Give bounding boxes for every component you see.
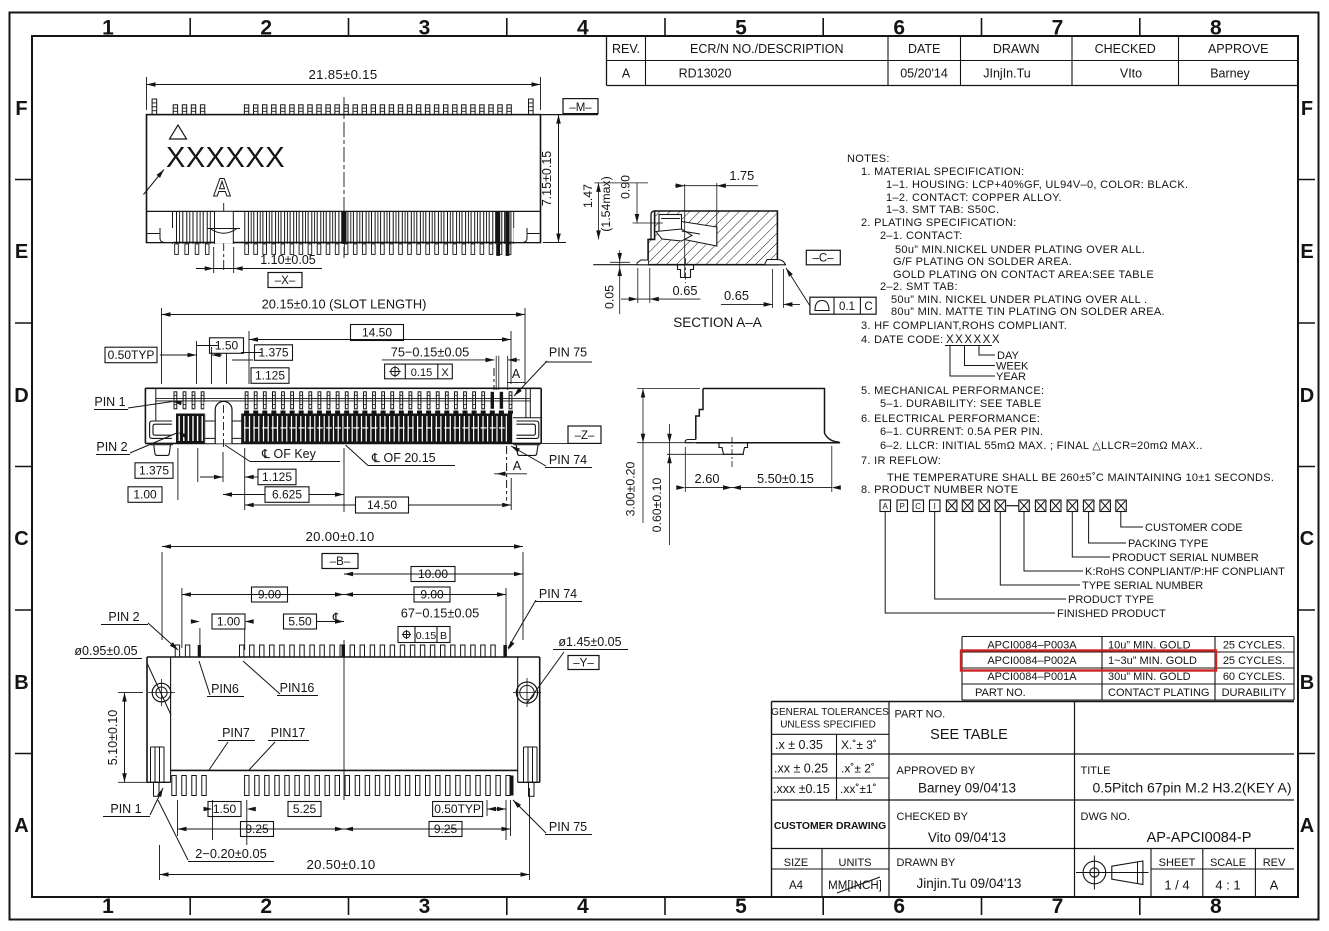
- svg-text:.xx˚±1˚: .xx˚±1˚: [840, 782, 877, 796]
- svg-text:SIZE: SIZE: [784, 857, 808, 869]
- section left foot: [637, 260, 648, 265]
- top view vertical centerline: [343, 97, 345, 258]
- svg-text:PIN 74: PIN 74: [539, 587, 577, 601]
- svg-text:0.15: 0.15: [416, 630, 437, 642]
- bottom view left corner tabs: [151, 747, 165, 782]
- svg-text:5.25: 5.25: [293, 802, 317, 816]
- svg-text:6.625: 6.625: [272, 488, 302, 502]
- front view lower contact band left group: [176, 414, 204, 444]
- svg-text:A4: A4: [789, 880, 804, 892]
- svg-text:A: A: [883, 502, 889, 511]
- side view body outline: [696, 389, 840, 443]
- top view solder tail stubs below body: [175, 244, 179, 255]
- svg-text:1.50: 1.50: [213, 802, 237, 816]
- svg-text:CHECKED BY: CHECKED BY: [897, 811, 969, 823]
- dimension 1.50 front: [210, 338, 244, 354]
- dimension 14.50 front lower: [245, 504, 355, 506]
- svg-text:NOTES:: NOTES:: [847, 153, 890, 165]
- svg-text:75−0.15±0.05: 75−0.15±0.05: [391, 345, 470, 360]
- svg-text:–Y–: –Y–: [573, 658, 594, 670]
- svg-text:6. ELECTRICAL PERFORMANCE:: 6. ELECTRICAL PERFORMANCE:: [861, 413, 1040, 425]
- svg-text:6: 6: [893, 17, 905, 40]
- front view band texture lines: [244, 427, 250, 428]
- svg-text:0.50TYP: 0.50TYP: [108, 348, 155, 362]
- svg-text:Vito 09/04'13: Vito 09/04'13: [928, 830, 1006, 845]
- svg-text:℄ OF 20.15: ℄ OF 20.15: [371, 451, 436, 465]
- section left wall outline: [651, 211, 655, 239]
- svg-text:UNLESS SPECIFIED: UNLESS SPECIFIED: [780, 720, 876, 731]
- svg-text:(1.54max): (1.54max): [599, 176, 613, 231]
- svg-text:C: C: [915, 502, 921, 511]
- title block grid lines: [888, 702, 890, 898]
- 0.50TYP arrows: [160, 354, 197, 356]
- leader arrow to marking: [144, 170, 165, 195]
- svg-text:UNITS: UNITS: [839, 857, 872, 869]
- svg-text:GOLD PLATING ON CONTACT: GOLD PLATING ON CONTACT AREA:SEE TABLE: [893, 269, 1154, 281]
- svg-text:F: F: [1301, 98, 1313, 120]
- svg-text:7.15±0.15: 7.15±0.15: [540, 151, 554, 207]
- svg-text:25 CYCLES.: 25 CYCLES.: [1223, 640, 1285, 652]
- svg-text:7: 7: [1052, 895, 1064, 918]
- svg-text:PIN 2: PIN 2: [96, 440, 127, 454]
- svg-text:Jinjin.Tu 09/04'13: Jinjin.Tu 09/04'13: [917, 876, 1022, 891]
- revision table: [606, 36, 608, 86]
- svg-text:REV: REV: [1263, 857, 1286, 869]
- svg-text:THE TEMPERATURE SHALL BE 2: THE TEMPERATURE SHALL BE 260±5˚C MAINTAI…: [887, 472, 1274, 484]
- svg-text:ø1.45±0.05: ø1.45±0.05: [558, 635, 621, 649]
- bottom view flange bottoms: [147, 781, 171, 783]
- key centerline in front view: [223, 405, 225, 449]
- svg-text:30u” MIN. GOLD: 30u” MIN. GOLD: [1108, 671, 1191, 683]
- svg-text:67−0.15±0.05: 67−0.15±0.05: [401, 606, 480, 621]
- svg-text:℄ OF Key: ℄ OF Key: [261, 447, 317, 461]
- svg-text:PIN 75: PIN 75: [549, 346, 587, 360]
- svg-text:PRODUCT TYPE: PRODUCT TYPE: [1068, 594, 1154, 606]
- svg-text:.xxx ±0.15: .xxx ±0.15: [773, 782, 830, 796]
- svg-text:I: I: [934, 502, 936, 511]
- svg-text:PART NO.: PART NO.: [975, 687, 1026, 699]
- right mounting hole: [516, 682, 537, 703]
- dimension 0.50TYP front: [105, 347, 157, 363]
- red highlight box on P002A row: [961, 651, 1216, 671]
- svg-text:5: 5: [735, 17, 747, 40]
- dimension 1.125 front lower: [258, 469, 296, 485]
- svg-text:1: 1: [102, 17, 114, 40]
- svg-text:4. DATE CODE:: 4. DATE CODE:: [861, 334, 944, 346]
- svg-text:PIN16: PIN16: [280, 681, 315, 695]
- svg-text:25 CYCLES.: 25 CYCLES.: [1223, 655, 1285, 667]
- svg-text:PIN7: PIN7: [222, 726, 250, 740]
- dimension 9.00 pair: [182, 594, 506, 596]
- svg-text:X: X: [441, 367, 449, 379]
- svg-text:PIN 1: PIN 1: [94, 395, 125, 409]
- section seating plane baseline: [593, 264, 786, 266]
- svg-text:0.1: 0.1: [839, 301, 855, 313]
- svg-text:G/F PLATING ON SOLDER AREA: G/F PLATING ON SOLDER AREA.: [893, 256, 1072, 268]
- dimension 7.15±0.15 right side: [543, 114, 566, 116]
- dimension 0.60±0.10 side: [669, 424, 671, 545]
- dimension 0.65 right: [772, 269, 774, 308]
- svg-text:PIN 2: PIN 2: [108, 610, 139, 624]
- svg-text:PIN17: PIN17: [271, 726, 306, 740]
- section line A bottom: [506, 446, 508, 501]
- svg-text:20.15±0.10 (SLOT LENGTH): 20.15±0.10 (SLOT LENGTH): [262, 297, 427, 312]
- svg-text:3. HF COMPLIANT,ROHS COMPLI: 3. HF COMPLIANT,ROHS COMPLIANT.: [861, 320, 1067, 332]
- svg-text:8. PRODUCT NUMBER NOTE: 8. PRODUCT NUMBER NOTE: [861, 484, 1018, 496]
- svg-text:.x˚± 2˚: .x˚± 2˚: [841, 762, 875, 776]
- svg-text:ø0.95±0.05: ø0.95±0.05: [74, 644, 137, 658]
- datum Z label box: [568, 426, 601, 443]
- svg-text:VIto: VIto: [1120, 67, 1142, 81]
- dimension 2.60 side: [684, 447, 686, 492]
- front view key post with dome: [204, 402, 241, 443]
- side view right foot: [820, 442, 840, 444]
- front view right foot: [514, 444, 541, 446]
- dimension 5.10±0.10: [118, 692, 143, 694]
- bottom view bottom pin row: [172, 776, 176, 796]
- svg-text:APCI0084–P001A: APCI0084–P001A: [987, 671, 1077, 683]
- svg-text:K:RoHS CONPLIANT/P:HF CONPLI: K:RoHS CONPLIANT/P:HF CONPLIANT: [1085, 566, 1285, 578]
- dimension 20.15 slot length: [161, 308, 163, 384]
- title block outline: [772, 701, 1295, 703]
- front view right end cap: [540, 388, 542, 443]
- product code leader lines and labels: [1121, 512, 1143, 528]
- dimension 1.00 front lower: [128, 487, 162, 503]
- svg-text:6–2. LLCR: INITIAL 55mΩ MA: 6–2. LLCR: INITIAL 55mΩ MAX. ; FINAL △LL…: [880, 440, 1203, 452]
- svg-text:YEAR: YEAR: [996, 371, 1026, 383]
- svg-text:8: 8: [1210, 17, 1222, 40]
- svg-text:A: A: [622, 67, 631, 81]
- svg-text:GENERAL TOLERANCES: GENERAL TOLERANCES: [771, 707, 889, 718]
- svg-text:4: 4: [577, 17, 589, 40]
- svg-text:D: D: [1300, 385, 1314, 407]
- section right foot: [765, 260, 786, 265]
- bottom view centerline vertical: [343, 640, 345, 800]
- svg-text:50u” MIN.NICKEL UNDER PLATI: 50u” MIN.NICKEL UNDER PLATING OVER ALL.: [895, 244, 1145, 256]
- svg-text:DRAWN BY: DRAWN BY: [897, 857, 957, 869]
- front view slot floor lines: [156, 397, 530, 399]
- svg-text:7. IR REFLOW:: 7. IR REFLOW:: [861, 455, 941, 467]
- svg-text:ECR/N NO./DESCRIPTION: ECR/N NO./DESCRIPTION: [690, 42, 844, 56]
- svg-text:A: A: [213, 174, 231, 202]
- svg-text:5.10±0.10: 5.10±0.10: [106, 710, 120, 766]
- dimension 1.00 and 5.50: [212, 614, 245, 629]
- position tolerance frame upper: [385, 364, 453, 379]
- svg-text:A: A: [1270, 878, 1279, 893]
- svg-text:21.85±0.15: 21.85±0.15: [309, 67, 378, 82]
- top view black pins: [342, 211, 347, 244]
- svg-text:PACKING TYPE: PACKING TYPE: [1128, 538, 1208, 550]
- datum Y label box: [568, 656, 599, 670]
- svg-text:PIN6: PIN6: [211, 682, 239, 696]
- svg-text:CHECKED: CHECKED: [1095, 42, 1156, 56]
- svg-text:TYPE SERIAL NUMBER: TYPE SERIAL NUMBER: [1082, 580, 1203, 592]
- svg-text:5: 5: [735, 895, 747, 918]
- side view left foot lip: [685, 440, 696, 443]
- svg-text:2–1. CONTACT:: 2–1. CONTACT:: [880, 230, 963, 242]
- contact plating table: [962, 636, 1294, 638]
- svg-text:6–1. CURRENT: 0.5A PER PIN: 6–1. CURRENT: 0.5A PER PIN.: [880, 426, 1043, 438]
- svg-text:6: 6: [893, 895, 905, 918]
- 75 dim extension lines at pin75: [495, 356, 497, 390]
- dimension 0.05 standoff: [619, 250, 621, 314]
- svg-text:0.15: 0.15: [411, 367, 432, 379]
- svg-text:9.00: 9.00: [420, 588, 444, 602]
- svg-text:DWG NO.: DWG NO.: [1081, 811, 1131, 823]
- svg-text:3.00±0.20: 3.00±0.20: [624, 462, 638, 517]
- svg-text:SHEET: SHEET: [1159, 857, 1196, 869]
- svg-text:1–3. SMT TAB: S50C.: 1–3. SMT TAB: S50C.: [886, 204, 999, 216]
- svg-text:PRODUCT SERIAL NUMBER: PRODUCT SERIAL NUMBER: [1112, 552, 1259, 564]
- zone tick marks left/right: [15, 179, 32, 181]
- section line A top: [493, 368, 495, 390]
- svg-text:10.00: 10.00: [418, 567, 448, 581]
- dimension 10.00: [344, 573, 523, 575]
- front view body top edge: [145, 387, 541, 389]
- svg-text:CONTACT PLATING: CONTACT PLATING: [1108, 687, 1209, 699]
- svg-text:XXXXXX: XXXXXX: [166, 142, 285, 174]
- svg-text:5.50±0.15: 5.50±0.15: [757, 471, 814, 486]
- svg-text:–B–: –B–: [330, 556, 351, 568]
- svg-text:E: E: [15, 241, 28, 263]
- svg-text:SECTION A–A: SECTION A–A: [673, 315, 762, 330]
- dimension 1.125 front upper: [251, 368, 289, 384]
- svg-text:2.60: 2.60: [695, 471, 720, 486]
- svg-text:4: 4: [577, 895, 589, 918]
- svg-text:0.50TYP: 0.50TYP: [434, 802, 481, 816]
- svg-text:5. MECHANICAL PERFORMANCE:: 5. MECHANICAL PERFORMANCE:: [861, 385, 1044, 397]
- svg-text:2: 2: [260, 17, 272, 40]
- svg-text:D: D: [14, 385, 28, 407]
- svg-text:Barney: Barney: [1210, 67, 1250, 81]
- svg-text:C: C: [1300, 528, 1314, 550]
- svg-text:0.5Pitch 67pin M.2 H3.2(KEY A): 0.5Pitch 67pin M.2 H3.2(KEY A): [1093, 780, 1292, 796]
- dimension 1.75 section: [684, 184, 686, 278]
- dimension 0.65 left: [637, 268, 639, 303]
- side view solder tab: [719, 443, 748, 455]
- svg-text:DRAWN: DRAWN: [993, 42, 1040, 56]
- section contact cavity white regions: [659, 215, 682, 232]
- svg-text:2−0.20±0.05: 2−0.20±0.05: [195, 846, 266, 861]
- svg-text:PIN 74: PIN 74: [549, 453, 587, 467]
- svg-text:E: E: [1300, 241, 1313, 263]
- svg-text:5.50: 5.50: [288, 615, 312, 629]
- svg-text:3: 3: [419, 895, 431, 918]
- dash between box groups: [1007, 505, 1019, 507]
- top view upper edge pins: [152, 99, 157, 115]
- svg-text:20.00±0.10: 20.00±0.10: [306, 529, 375, 544]
- svg-text:APCI0084–P002A: APCI0084–P002A: [987, 655, 1077, 667]
- svg-text:DATE: DATE: [908, 42, 940, 56]
- bottom view right corner tabs: [524, 747, 538, 782]
- leader from right foot to tolerance frame: [786, 268, 810, 306]
- top view left foot notch: [148, 228, 174, 242]
- svg-text:0.05: 0.05: [603, 285, 617, 309]
- svg-text:14.50: 14.50: [362, 326, 392, 340]
- third angle projection symbol: [1083, 861, 1106, 884]
- dimensions 1.50 5.25 0.50TYP bottom: [208, 802, 241, 817]
- svg-text:80u” MIN. MATTE TIN PLATIN: 80u” MIN. MATTE TIN PLATING ON SOLDER AR…: [891, 306, 1165, 318]
- svg-text:60 CYCLES.: 60 CYCLES.: [1223, 671, 1285, 683]
- svg-text:50u” MIN. NICKEL UNDER PLA: 50u” MIN. NICKEL UNDER PLATING OVER ALL …: [891, 294, 1147, 306]
- svg-text:1~3u” MIN. GOLD: 1~3u” MIN. GOLD: [1108, 655, 1197, 667]
- front view body bottom edge: [145, 442, 541, 444]
- svg-text:–M–: –M–: [569, 102, 592, 114]
- svg-text:SCALE: SCALE: [1210, 857, 1246, 869]
- svg-text:0.90: 0.90: [619, 175, 633, 199]
- front view lower dim extension lines: [177, 448, 179, 500]
- dimension 5.50±0.15 side: [831, 446, 833, 492]
- datum B label box: [322, 554, 358, 569]
- top view right foot notch: [514, 228, 540, 242]
- svg-text:1.125: 1.125: [262, 470, 292, 484]
- front view lower contact band main: [242, 414, 513, 444]
- svg-text:1.47: 1.47: [581, 184, 595, 208]
- svg-text:7: 7: [1052, 17, 1064, 40]
- svg-text:X.˚± 3˚: X.˚± 3˚: [841, 738, 877, 752]
- left mounting hole: [152, 683, 171, 702]
- svg-text:3: 3: [419, 17, 431, 40]
- dimension 20.50±0.10: [159, 845, 161, 880]
- dimension 21.85±0.15 top: [146, 77, 148, 110]
- svg-text:1.50: 1.50: [215, 339, 239, 353]
- top view body outline: [147, 115, 541, 243]
- svg-text:1.00: 1.00: [133, 488, 157, 502]
- side view horizontal ref line: [667, 453, 744, 455]
- top view pin field stripes: [172, 211, 174, 244]
- svg-text:9.00: 9.00: [258, 588, 282, 602]
- svg-text:Barney 09/04'13: Barney 09/04'13: [918, 781, 1016, 796]
- svg-text:APPROVE: APPROVE: [1208, 42, 1268, 56]
- svg-text:9.25: 9.25: [434, 822, 458, 836]
- svg-text:0.65: 0.65: [673, 283, 698, 298]
- front view upper contact pins: [174, 392, 177, 409]
- svg-text:CUSTOMER DRAWING: CUSTOMER DRAWING: [774, 821, 886, 832]
- dimension 6.625 front lower: [265, 487, 309, 503]
- position tolerance frame lower: [398, 627, 450, 643]
- dimension 9.25 pair: [178, 828, 511, 830]
- top view pin block top line: [147, 210, 541, 212]
- svg-text:B: B: [1300, 672, 1314, 694]
- svg-text:2–2. SMT TAB:: 2–2. SMT TAB:: [880, 281, 958, 293]
- svg-text:PART NO.: PART NO.: [895, 709, 946, 721]
- datum X label box: [268, 273, 302, 288]
- dimension 3.00±0.20 side: [637, 388, 700, 390]
- svg-text:1. MATERIAL SPECIFICATION:: 1. MATERIAL SPECIFICATION:: [861, 166, 1024, 178]
- product number code boxes: [880, 500, 891, 512]
- centerline of key leader: [225, 445, 250, 462]
- svg-text:F: F: [15, 98, 27, 120]
- svg-text:A: A: [512, 367, 521, 381]
- svg-text:4 : 1: 4 : 1: [1215, 878, 1240, 893]
- svg-text:.xx ± 0.25: .xx ± 0.25: [774, 762, 828, 776]
- zone tick marks top/bottom: [189, 18, 191, 36]
- svg-text:9.25: 9.25: [245, 822, 269, 836]
- svg-text:–Z–: –Z–: [575, 430, 595, 442]
- date code leader lines DAY/WEEK/YEAR: [979, 346, 995, 356]
- svg-text:1.00: 1.00: [217, 615, 241, 629]
- svg-text:1–2. CONTACT: COPPER ALLOY.: 1–2. CONTACT: COPPER ALLOY.: [886, 192, 1062, 204]
- front view left end cap: [144, 388, 146, 443]
- svg-text:2: 2: [260, 895, 272, 918]
- svg-text:1.125: 1.125: [255, 369, 285, 383]
- svg-text:A: A: [513, 459, 522, 473]
- svg-text:0.60±0.10: 0.60±0.10: [650, 478, 664, 533]
- dimension 1.375 front lower: [135, 463, 173, 479]
- svg-text:PIN 1: PIN 1: [110, 802, 141, 816]
- svg-text:℄: ℄: [332, 610, 342, 625]
- svg-text:.x ± 0.35: .x ± 0.35: [775, 738, 823, 752]
- svg-text:XXXXXX: XXXXXX: [946, 334, 1001, 346]
- front view dim extension ticks: [196, 341, 198, 384]
- svg-text:JInjIn.Tu: JInjIn.Tu: [983, 67, 1031, 81]
- svg-text:REV.: REV.: [612, 42, 640, 56]
- svg-text:–C–: –C–: [812, 253, 834, 265]
- svg-text:TITLE: TITLE: [1081, 765, 1111, 777]
- svg-text:B: B: [14, 672, 28, 694]
- svg-text:20.50±0.10: 20.50±0.10: [307, 857, 376, 872]
- svg-text:RD13020: RD13020: [679, 67, 732, 81]
- svg-text:1.375: 1.375: [258, 346, 288, 360]
- section left dim lines: [594, 182, 648, 184]
- svg-text:1–1. HOUSING: LCP+40%GF, UL: 1–1. HOUSING: LCP+40%GF, UL94V–0, COLOR:…: [886, 179, 1188, 191]
- svg-text:B: B: [440, 630, 447, 642]
- dimension 20.00±0.10: [161, 552, 163, 640]
- profile tolerance frame 0.1 C: [810, 297, 876, 314]
- svg-text:PIN 75: PIN 75: [549, 820, 587, 834]
- svg-text:1.10±0.05: 1.10±0.05: [260, 253, 316, 267]
- svg-text:A: A: [14, 815, 28, 837]
- svg-text:P: P: [900, 502, 905, 511]
- key slot cutout in pin field: [215, 212, 234, 244]
- svg-text:2. PLATING SPECIFICATION:: 2. PLATING SPECIFICATION:: [861, 217, 1017, 229]
- svg-text:FINISHED PRODUCT: FINISHED PRODUCT: [1057, 608, 1166, 620]
- datum C label box: [806, 250, 840, 264]
- svg-text:5–1. DURABILITY: SEE TABLE: 5–1. DURABILITY: SEE TABLE: [880, 398, 1041, 410]
- bottom view top pin row: [175, 645, 179, 657]
- front view left foot: [150, 444, 173, 446]
- svg-text:14.50: 14.50: [367, 498, 397, 512]
- svg-text:CUSTOMER CODE: CUSTOMER CODE: [1145, 522, 1243, 534]
- svg-text:0.65: 0.65: [724, 288, 749, 303]
- bottom view body outline: [147, 656, 540, 658]
- datum M label box: [541, 114, 599, 116]
- svg-text:1: 1: [102, 895, 114, 918]
- centerline of 20.15 leader: [346, 445, 369, 466]
- svg-text:C: C: [864, 301, 872, 313]
- dimension 1.375 front upper: [255, 345, 293, 361]
- svg-text:AP-APCI0084-P: AP-APCI0084-P: [1147, 830, 1252, 846]
- svg-text:APPROVED BY: APPROVED BY: [897, 765, 977, 777]
- svg-text:–X–: –X–: [275, 275, 296, 287]
- svg-text:SEE TABLE: SEE TABLE: [930, 727, 1008, 743]
- section solder tab below: [678, 265, 694, 278]
- key slot centerline dashed: [223, 203, 225, 272]
- svg-text:C: C: [14, 528, 28, 550]
- svg-text:DURABILITY: DURABILITY: [1222, 687, 1287, 699]
- svg-text:1.375: 1.375: [139, 464, 169, 478]
- dimension 1.10±0.05 key width: [213, 247, 215, 273]
- svg-text:05/20'14: 05/20'14: [900, 67, 948, 81]
- index triangle mark: [170, 125, 187, 139]
- svg-text:8: 8: [1210, 895, 1222, 918]
- svg-text:1.75: 1.75: [729, 168, 754, 183]
- svg-text:A: A: [1300, 815, 1314, 837]
- svg-text:1 / 4: 1 / 4: [1164, 878, 1189, 893]
- dimension 14.50 upper front: [248, 331, 250, 384]
